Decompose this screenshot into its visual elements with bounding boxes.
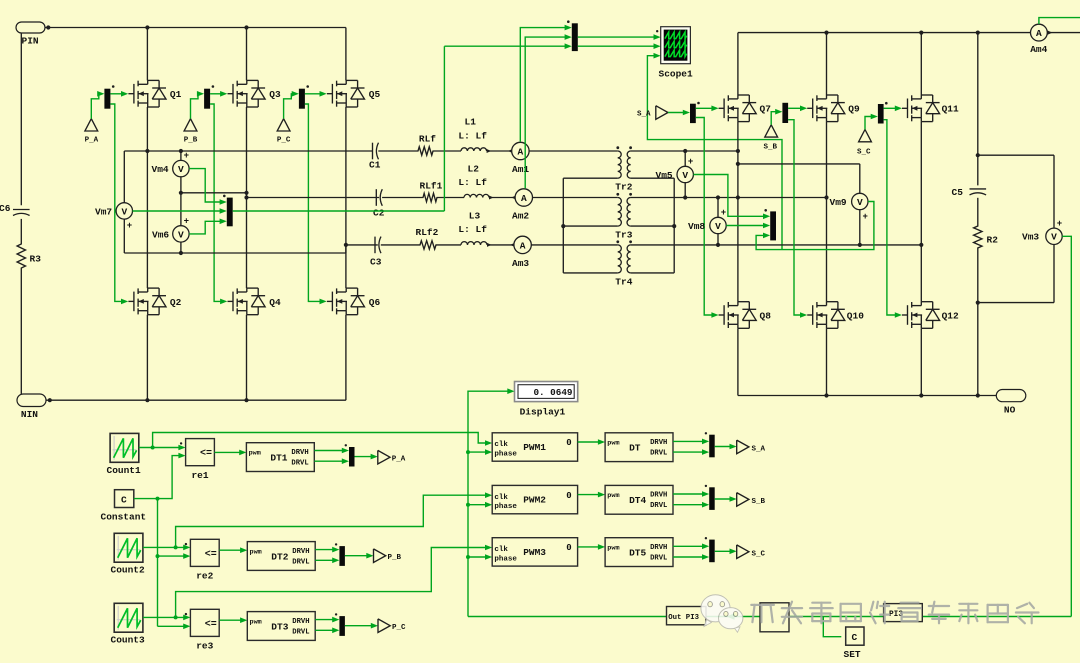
svg-text:Q2: Q2 (170, 297, 182, 308)
svg-text:0. 0649: 0. 0649 (533, 387, 572, 398)
wire leg B2 vertical (826, 33, 828, 396)
svg-text:Vm5: Vm5 (656, 170, 673, 181)
wire PWM2 to DT4 (578, 492, 606, 498)
wire bar to Q7 gate (696, 106, 719, 112)
svg-text:P_A: P_A (392, 455, 406, 463)
svg-text:<=: <= (205, 549, 217, 560)
wire Count3 to re3 and clk3 line (143, 545, 492, 621)
wire S_C to bar (865, 114, 878, 130)
svg-text:DRVH: DRVH (292, 618, 309, 626)
svg-text:DT4: DT4 (629, 495, 646, 506)
ammeter Am2 (512, 189, 533, 222)
block Count3 (111, 603, 146, 645)
wire bar to S_B out (715, 496, 737, 502)
gate drive bar leg A (104, 85, 114, 109)
svg-text:Am1: Am1 (512, 164, 529, 175)
transistor Q12 (902, 302, 959, 329)
wire Am2 to top bar (525, 34, 572, 188)
capacitor C5 (952, 187, 987, 198)
svg-text:A: A (1036, 28, 1042, 39)
wire bar to Q6 gate (305, 104, 327, 304)
svg-text:DRVL: DRVL (650, 450, 667, 458)
block SET (844, 627, 865, 660)
wire bar to Q8 gate (696, 118, 719, 318)
wire transformer secondary right loop (631, 178, 677, 273)
svg-text:P_B: P_B (184, 136, 198, 144)
svg-text:Q6: Q6 (369, 297, 381, 308)
probe bar DT3 (335, 613, 345, 636)
voltmeter Vm7 (95, 203, 133, 231)
capacitor C6 (0, 203, 30, 216)
wire re3 to DT3 (219, 617, 247, 623)
svg-text:S_B: S_B (752, 498, 766, 506)
comparator re2 (185, 539, 220, 581)
wire top rail right (738, 30, 1080, 35)
wire bar to Q10 gate (788, 120, 807, 318)
svg-text:C1: C1 (369, 160, 381, 171)
svg-text:<=: <= (205, 619, 217, 630)
svg-text:DRVH: DRVH (650, 439, 667, 447)
wire re2 to DT2 (219, 547, 247, 553)
summing bar primary (223, 195, 233, 227)
wire Vm7 line to top bar (444, 43, 571, 49)
inductor L1 (458, 117, 487, 142)
svg-text:re3: re3 (196, 641, 213, 652)
gate drive bar leg C2 (878, 102, 888, 124)
wire bar to Q3 gate (210, 91, 227, 97)
svg-text:C: C (852, 632, 858, 643)
svg-text:Q8: Q8 (760, 310, 772, 321)
block DT3 (247, 612, 315, 641)
svg-text:NO: NO (1004, 404, 1016, 415)
wire Vm7 output (133, 46, 445, 214)
svg-text:P_C: P_C (392, 624, 406, 632)
svg-text:DT2: DT2 (271, 551, 288, 562)
svg-text:A: A (521, 193, 527, 204)
svg-text:PWM1: PWM1 (523, 442, 546, 453)
flag S_A (637, 106, 668, 120)
svg-text:Count1: Count1 (107, 465, 142, 476)
svg-text:V: V (857, 197, 863, 208)
wire PWM1 to DT (578, 439, 606, 445)
flag S_B out (737, 493, 766, 507)
svg-text:V: V (121, 206, 127, 217)
svg-text:Am4: Am4 (1030, 44, 1047, 55)
svg-text:Constant: Constant (101, 512, 147, 523)
wire SET branch (823, 617, 841, 637)
wire bar to Q9 gate (788, 106, 807, 112)
svg-text:re2: re2 (196, 571, 213, 582)
svg-text:Tr4: Tr4 (615, 277, 632, 288)
flag P_A (85, 119, 99, 145)
svg-text:S_C: S_C (857, 148, 871, 156)
wire bar to scope in2 (578, 43, 661, 49)
wire P_C to bar (284, 91, 299, 119)
wire bar to Q4 gate (210, 104, 227, 304)
svg-text:pwm: pwm (250, 618, 262, 626)
svg-text:Q3: Q3 (269, 89, 281, 100)
svg-text:L: Lf: L: Lf (458, 130, 487, 141)
svg-text:L3: L3 (469, 210, 481, 221)
block In PI3 (884, 604, 923, 622)
capacitor C1 (369, 143, 381, 171)
wire transformer primary left loop (561, 178, 618, 273)
svg-text:0: 0 (566, 491, 571, 501)
svg-text:Q10: Q10 (847, 310, 864, 321)
block K (760, 603, 789, 632)
wire Vm6 to bar (189, 219, 227, 234)
wire PI3 output line (468, 613, 1071, 619)
wire S_B to bar (771, 109, 782, 125)
svg-text:S_C: S_C (752, 550, 766, 558)
wire leg A2 vertical (737, 33, 739, 396)
wire DT5 to bar (673, 544, 709, 560)
wire Vm mid to leg B (181, 192, 247, 194)
voltmeter Vm4 (152, 149, 190, 226)
svg-text:Display1: Display1 (520, 406, 566, 417)
wire DT3 to bar (315, 617, 339, 633)
voltmeter Vm5 (656, 151, 694, 198)
transistor Q1 (128, 80, 181, 107)
wire bar to P_A out (355, 454, 378, 460)
capacitor C3 (370, 237, 382, 268)
flag P_A out (378, 450, 406, 464)
wire Vm4 to bar (189, 169, 227, 205)
svg-text:+: + (184, 151, 189, 161)
wire bar to Q12 gate (884, 120, 902, 318)
svg-text:Am2: Am2 (512, 211, 529, 222)
block DT4 (605, 485, 673, 514)
wire Vm9 top link (736, 162, 860, 194)
wire top rail left (45, 25, 346, 29)
svg-text:+: + (862, 212, 867, 222)
gate drive bar leg B2 (782, 103, 788, 123)
svg-text:Am3: Am3 (512, 258, 529, 269)
svg-text:RLf: RLf (419, 133, 436, 144)
svg-text:C2: C2 (373, 207, 385, 218)
transistor Q2 (128, 288, 181, 315)
wire leg C2 vertical (920, 33, 922, 396)
wire measure box left (124, 151, 346, 255)
svg-text:DT: DT (629, 443, 641, 454)
flag P_B out (374, 549, 402, 563)
flag P_C (277, 119, 291, 145)
wire secondary rail1 (631, 149, 740, 153)
block Count2 (111, 533, 146, 575)
svg-text:PWM2: PWM2 (523, 495, 546, 506)
transformer Tr4 (615, 240, 632, 287)
wire output column (976, 33, 980, 396)
transistor Q4 (228, 288, 282, 315)
svg-text:DRVL: DRVL (292, 558, 309, 566)
svg-text:P_B: P_B (388, 554, 402, 562)
svg-text:P_A: P_A (85, 136, 99, 144)
svg-text:0: 0 (566, 543, 571, 553)
transformer Tr3 (615, 193, 632, 240)
flag S_A out (737, 440, 766, 454)
wire DT1 to bar (314, 448, 349, 464)
wire leg B vertical (244, 25, 248, 400)
svg-text:S_A: S_A (752, 446, 766, 454)
svg-text:+: + (127, 221, 132, 231)
svg-text:Q4: Q4 (269, 297, 281, 308)
wire AC rail phase A (124, 150, 372, 152)
svg-text:L2: L2 (468, 163, 480, 174)
block DT5 (605, 538, 673, 567)
flag S_C (857, 130, 871, 157)
transistor Q5 (327, 80, 381, 107)
transistor Q11 (902, 95, 959, 122)
voltmeter Vm3 (1022, 219, 1062, 245)
capacitor C2 (373, 189, 385, 218)
svg-text:+: + (1057, 219, 1062, 229)
node PIN (16, 22, 45, 47)
wire bar to S_C out (715, 549, 737, 555)
block Count1 (107, 433, 142, 475)
summing bar secondary (764, 209, 776, 240)
svg-text:DT3: DT3 (271, 621, 288, 632)
wire AC rail phase B (247, 197, 380, 199)
block PWM3 (492, 538, 577, 566)
svg-text:RLf2: RLf2 (416, 227, 439, 238)
flag S_B (764, 125, 778, 152)
transistor Q9 (807, 95, 860, 122)
wire bar to Q5 gate (305, 91, 327, 97)
transistor Q6 (327, 288, 381, 315)
svg-text:Vm8: Vm8 (688, 221, 705, 232)
resistor RLf (419, 133, 436, 144)
svg-text:Scope1: Scope1 (659, 69, 694, 80)
svg-text:L: Lf: L: Lf (458, 177, 487, 188)
svg-text:phase: phase (494, 503, 517, 511)
svg-text:V: V (682, 170, 688, 181)
inductor L3 (458, 210, 487, 235)
wire bar to scope in1 (578, 34, 661, 40)
svg-text:+: + (184, 216, 189, 226)
svg-text:R2: R2 (987, 234, 999, 245)
wire Vm8 to bar (726, 223, 770, 229)
block PWM2 (492, 485, 577, 513)
wire left input column (20, 33, 22, 394)
resistor RLf2 (416, 227, 439, 238)
svg-text:SET: SET (844, 649, 861, 660)
svg-text:phase: phase (494, 450, 517, 458)
wire Vm9 to bar (756, 202, 874, 250)
wire rail C cap to transformer (381, 241, 618, 249)
svg-text:Q12: Q12 (942, 310, 959, 321)
wire Am4 green tap (1039, 18, 1080, 24)
flag P_C out (378, 619, 406, 633)
svg-text:+: + (721, 208, 726, 218)
block Out PI3 (667, 607, 707, 625)
ammeter Am1 (512, 142, 530, 175)
svg-text:Vm6: Vm6 (152, 229, 169, 240)
svg-text:L: Lf: L: Lf (458, 224, 487, 235)
probe bar top (567, 20, 578, 51)
svg-text:R3: R3 (30, 254, 42, 265)
svg-text:clk: clk (494, 494, 508, 502)
watermark text (751, 602, 1038, 624)
wire re1 to DT1 (214, 450, 246, 456)
svg-text:Vm4: Vm4 (152, 164, 169, 175)
transistor Q10 (807, 302, 864, 329)
svg-text:Vm9: Vm9 (830, 197, 847, 208)
svg-text:DRVH: DRVH (650, 544, 667, 552)
svg-text:Q9: Q9 (848, 103, 860, 114)
svg-text:DT5: DT5 (629, 548, 646, 559)
wire Vm3 green to PI line (1062, 236, 1071, 616)
probe bar S_C (705, 537, 715, 562)
flag P_B (184, 119, 198, 145)
svg-text:Q5: Q5 (369, 89, 381, 100)
svg-text:C3: C3 (370, 256, 382, 267)
display Display1 (515, 382, 578, 418)
svg-text:0: 0 (566, 438, 571, 448)
svg-text:DRVH: DRVH (292, 548, 309, 556)
svg-text:V: V (1051, 232, 1057, 243)
svg-text:RLf1: RLf1 (420, 180, 443, 191)
block PWM1 (492, 433, 577, 461)
svg-text:DRVL: DRVL (291, 460, 308, 468)
svg-text:S_A: S_A (637, 111, 651, 119)
wire DT to bar2 (673, 439, 709, 455)
wire rail B cap to transformer (382, 193, 618, 201)
wire AC rail phase C (346, 244, 378, 246)
svg-text:S_B: S_B (764, 143, 778, 151)
svg-text:Tr2: Tr2 (615, 182, 632, 193)
wire bar to Q2 gate (110, 104, 128, 304)
svg-text:pwm: pwm (607, 492, 619, 500)
wire P_B to bar (191, 91, 205, 119)
svg-text:Out PI3: Out PI3 (668, 614, 699, 622)
svg-text:PWM3: PWM3 (523, 547, 546, 558)
wire bar to Q1 gate (110, 91, 128, 97)
block DT1 (246, 443, 314, 472)
svg-text:DT1: DT1 (270, 453, 287, 464)
svg-text:DRVL: DRVL (650, 502, 667, 510)
wire phase feeds (468, 449, 492, 560)
wire bottom rail right (738, 393, 996, 397)
wire DT4 to bar (673, 491, 709, 507)
wire S_B net to scope in3 (647, 53, 782, 250)
wire DT2 to bar (315, 547, 339, 563)
wire secondary rail3 (631, 243, 924, 247)
svg-text:L1: L1 (465, 117, 477, 128)
block DT2 (247, 542, 315, 571)
svg-text:Vm7: Vm7 (95, 206, 112, 217)
flag S_C out (737, 545, 766, 559)
wire Count1 to re1 and clk line (139, 433, 492, 451)
transistor Q7 (719, 95, 772, 122)
block Constant (101, 490, 147, 523)
wire bar to S_A out (715, 444, 737, 450)
wire bar to P_B out (345, 553, 374, 559)
node NIN (17, 394, 46, 420)
svg-text:clk: clk (494, 546, 508, 554)
voltmeter Vm6 (152, 216, 189, 253)
wire Am1 to top bar (520, 25, 572, 142)
svg-text:Vm3: Vm3 (1022, 232, 1039, 243)
svg-text:<=: <= (200, 449, 212, 460)
resistor R2 (974, 222, 999, 252)
svg-text:pwm: pwm (250, 548, 262, 556)
svg-text:C: C (121, 495, 127, 506)
svg-text:NIN: NIN (21, 409, 38, 420)
gate drive bar leg B (204, 85, 214, 109)
resistor R3 (17, 240, 41, 272)
transistor Q8 (719, 302, 772, 329)
svg-text:DRVH: DRVH (291, 449, 308, 457)
comparator re3 (185, 609, 220, 651)
wire secondary rail2 (631, 195, 829, 199)
wire Vm5 to bar (693, 175, 770, 220)
gate drive bar leg A2 (690, 102, 700, 123)
wire Constant to re inputs (134, 453, 191, 629)
svg-text:phase: phase (494, 555, 517, 563)
voltmeter Vm8 (688, 198, 726, 245)
svg-text:V: V (178, 229, 184, 240)
wire Vm3 branch (978, 155, 1054, 302)
probe bar S_A (705, 432, 715, 457)
wire PWM3 to DT5 (578, 544, 606, 550)
ammeter Am4 (1030, 24, 1047, 55)
svg-text:pwm: pwm (607, 544, 619, 552)
svg-text:DRVH: DRVH (650, 492, 667, 500)
transistor Q3 (228, 80, 282, 107)
svg-text:Count2: Count2 (111, 565, 146, 576)
svg-text:Count3: Count3 (111, 635, 146, 646)
probe bar DT2 (335, 543, 345, 566)
inductor L2 (458, 163, 487, 188)
gate drive bar leg C (299, 85, 309, 109)
svg-text:PIN: PIN (22, 36, 39, 47)
node NO (996, 390, 1026, 416)
comparator re1 (180, 439, 215, 481)
wire PI line to display (466, 388, 515, 616)
wire S_A to bar (668, 110, 690, 116)
svg-text:C5: C5 (952, 187, 964, 198)
svg-text:A: A (518, 146, 524, 157)
svg-text:Tr3: Tr3 (615, 229, 632, 240)
ammeter Am3 (512, 236, 531, 269)
svg-text:Q11: Q11 (942, 103, 959, 114)
wire P_A to bar (91, 91, 104, 119)
block DT (605, 433, 673, 462)
svg-text:+: + (688, 157, 693, 167)
svg-text:A: A (520, 240, 526, 251)
wire rail A cap to transformer (378, 147, 618, 155)
watermark logo (701, 595, 743, 633)
scope Scope1 (656, 27, 693, 80)
wire leg C vertical (344, 28, 348, 401)
wire bar to P_C out (345, 623, 378, 629)
wire leg A vertical (145, 25, 149, 400)
wire Count2 to re2 and clk2 line (143, 492, 492, 550)
probe bar DT1 (345, 444, 355, 466)
svg-text:V: V (178, 164, 184, 175)
svg-text:P_C: P_C (277, 136, 291, 144)
voltmeter Vm9 (830, 193, 869, 245)
svg-text:re1: re1 (191, 470, 208, 481)
svg-text:Q7: Q7 (760, 103, 772, 114)
wire bottom rail left (46, 398, 346, 402)
svg-text:DRVL: DRVL (650, 555, 667, 563)
svg-text:Q1: Q1 (170, 89, 182, 100)
svg-text:pwm: pwm (249, 449, 261, 457)
svg-text:V: V (715, 221, 721, 232)
svg-text:clk: clk (494, 441, 508, 449)
resistor RLf1 (420, 180, 443, 191)
